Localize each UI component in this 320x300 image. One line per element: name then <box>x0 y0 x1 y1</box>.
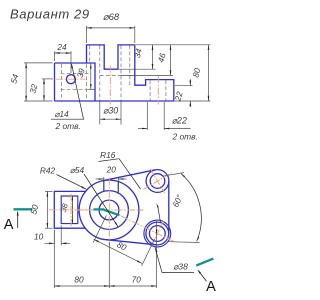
center line arm <box>49 209 91 211</box>
upper lobe R16 <box>146 170 169 193</box>
axis center to lower lobe <box>121 216 175 243</box>
hidden boss d54 bottom <box>100 74 121 76</box>
notch side right plan <box>117 182 119 193</box>
center line horizontal big <box>76 209 144 211</box>
svg-text:⌀54: ⌀54 <box>70 165 85 175</box>
label R16 with leader <box>99 159 120 162</box>
lower lobe cross line <box>151 221 163 246</box>
svg-text:⌀14: ⌀14 <box>54 109 69 119</box>
svg-text:10: 10 <box>34 231 44 241</box>
svg-text:32: 32 <box>27 83 39 95</box>
plan view outer circle R42 <box>79 180 139 240</box>
upper lobe cross line <box>150 169 164 194</box>
svg-text:70: 70 <box>132 274 142 284</box>
dimension 80 bottom <box>53 230 55 288</box>
center line vertical big <box>108 178 110 246</box>
leader arrow between lobes <box>158 206 161 223</box>
section trace middle diagonal <box>104 210 120 215</box>
svg-text:46: 46 <box>156 52 168 64</box>
svg-text:R16: R16 <box>100 150 116 160</box>
dimension d68 <box>86 26 88 43</box>
tangent bottom <box>106 240 156 245</box>
dimension 80 slanted <box>93 215 106 242</box>
label d30 with extension lines <box>99 102 101 125</box>
svg-text:60°: 60° <box>170 193 185 209</box>
hidden boss d54 right <box>129 46 131 86</box>
section trace middle horizontal <box>94 208 105 210</box>
section trace A left <box>14 208 33 210</box>
hidden hole d30 right <box>120 46 122 101</box>
boss and base outline <box>55 45 174 101</box>
svg-text:Вариант 29: Вариант 29 <box>10 6 90 21</box>
hidden edge boss left <box>86 64 88 100</box>
hidden hole d30 left <box>99 46 101 101</box>
dimension 46 <box>121 74 173 76</box>
svg-text:⌀68: ⌀68 <box>103 12 120 23</box>
section trace A right <box>196 259 213 266</box>
dimension 32 <box>42 78 53 80</box>
svg-text:20: 20 <box>106 164 117 174</box>
lower lobe R16 <box>146 222 169 245</box>
tangent between lobes <box>168 181 170 234</box>
svg-text:80: 80 <box>190 67 202 79</box>
dimension 39 <box>90 63 92 89</box>
arrow at lower lobe center <box>156 230 158 235</box>
label d22 2 holes with dimension <box>146 102 148 130</box>
hidden hole d22 left <box>149 80 151 100</box>
dimension 20 <box>103 177 105 190</box>
tangent top <box>103 170 155 181</box>
section arrow left <box>17 212 19 228</box>
plan view bore d30 <box>99 200 119 220</box>
svg-text:24: 24 <box>56 42 67 52</box>
dimension 60 degrees <box>181 174 201 242</box>
center line hole d22 <box>157 76 159 105</box>
svg-text:⌀22: ⌀22 <box>172 116 187 126</box>
svg-text:50: 50 <box>28 203 40 215</box>
svg-text:80: 80 <box>74 274 84 284</box>
front wall outline <box>55 63 96 101</box>
dimension 24 <box>54 51 56 61</box>
hidden slot top <box>61 72 90 74</box>
svg-text:39: 39 <box>75 67 87 79</box>
hidden slot bottom <box>61 88 94 90</box>
dimension 50 <box>45 190 53 192</box>
upper lobe hole d22 <box>150 174 165 189</box>
arm outline plan <box>54 191 85 228</box>
dimension 80 height <box>136 44 211 46</box>
svg-text:38: 38 <box>59 202 70 213</box>
dimension 70 bottom <box>151 285 156 287</box>
arm slot plan <box>61 196 78 224</box>
svg-text:⌀38: ⌀38 <box>173 262 188 272</box>
hidden hole d22 right <box>165 80 167 100</box>
svg-text:54: 54 <box>8 73 20 85</box>
center line slot <box>70 194 72 227</box>
dimension 22 step <box>175 85 193 87</box>
label d38 with leader <box>162 272 194 274</box>
label d14 2 holes with leader <box>72 64 84 119</box>
svg-text:2 отв.: 2 отв. <box>172 132 198 142</box>
lower lobe boss d38 <box>144 220 171 247</box>
hidden boss d54 left <box>89 46 91 63</box>
upper lobe radial line <box>144 173 172 190</box>
svg-text:⌀30: ⌀30 <box>103 105 118 115</box>
svg-text:34: 34 <box>132 47 144 59</box>
svg-text:А: А <box>206 279 216 295</box>
lower lobe hole d22 <box>149 226 165 242</box>
center line hole d30 <box>109 66 111 105</box>
label R42 with leader <box>57 175 87 190</box>
center line hole d14 <box>56 78 86 80</box>
notch side left plan <box>103 181 105 192</box>
dimension 10 <box>53 230 55 245</box>
svg-text:2 отв.: 2 отв. <box>55 121 81 131</box>
plan view circle d54 <box>90 191 129 230</box>
section arrow right <box>199 271 207 281</box>
hole d14 front <box>66 75 75 84</box>
label d54 with leader <box>84 174 118 227</box>
svg-text:R42: R42 <box>40 165 56 175</box>
dimension 54 <box>24 62 53 64</box>
svg-text:А: А <box>4 217 14 233</box>
dimension 34 <box>119 68 156 70</box>
hidden edge left <box>61 64 63 100</box>
